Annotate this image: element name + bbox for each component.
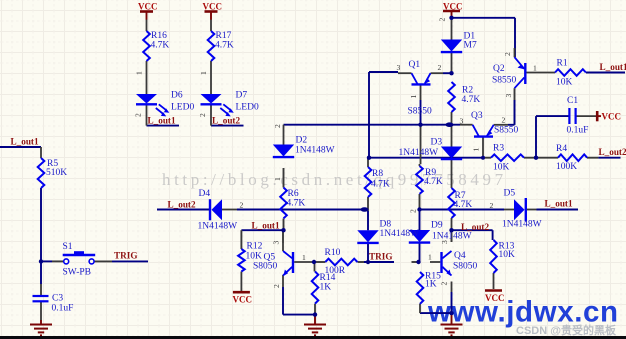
svg-text:1: 1 (533, 64, 537, 73)
svg-text:100K: 100K (556, 162, 577, 172)
svg-text:10K: 10K (499, 250, 516, 260)
svg-text:S8550: S8550 (492, 76, 517, 86)
svg-text:2: 2 (438, 63, 442, 72)
svg-text:1N4148W: 1N4148W (432, 232, 472, 242)
svg-text:C3: C3 (52, 294, 63, 304)
svg-text:D9: D9 (431, 221, 443, 231)
svg-text:D4: D4 (199, 189, 211, 199)
svg-text:Q3: Q3 (471, 111, 483, 121)
svg-text:D6: D6 (171, 91, 183, 101)
svg-text:R14: R14 (320, 273, 336, 283)
svg-text:VCC: VCC (485, 293, 505, 303)
svg-text:1K: 1K (320, 283, 332, 293)
svg-text:1: 1 (302, 253, 306, 262)
svg-text:Q1: Q1 (409, 60, 421, 70)
svg-text:2: 2 (240, 201, 244, 210)
svg-text:510K: 510K (46, 168, 67, 178)
svg-text:1: 1 (472, 148, 481, 152)
svg-text:1: 1 (273, 177, 282, 181)
svg-text:1N4148W: 1N4148W (502, 220, 542, 230)
svg-text:4.7K: 4.7K (287, 199, 306, 209)
svg-text:10K: 10K (556, 78, 573, 88)
svg-text:4.7K: 4.7K (371, 180, 390, 190)
svg-text:1: 1 (199, 71, 208, 75)
svg-text:R12: R12 (247, 242, 263, 252)
svg-text:D2: D2 (296, 136, 308, 146)
svg-text:2: 2 (490, 201, 494, 210)
svg-text:L_out1: L_out1 (600, 62, 626, 72)
svg-text:1K: 1K (425, 280, 437, 290)
svg-text:4.7K: 4.7K (151, 41, 170, 51)
svg-text:4.7K: 4.7K (215, 41, 234, 51)
svg-text:S8550: S8550 (408, 107, 433, 117)
svg-text:S8050: S8050 (253, 262, 278, 272)
svg-text:S8550: S8550 (494, 126, 519, 136)
svg-text:C1: C1 (567, 96, 578, 106)
svg-text:3: 3 (397, 63, 401, 72)
svg-text:LED0: LED0 (236, 103, 259, 113)
svg-text:10K: 10K (493, 163, 510, 173)
svg-text:D7: D7 (236, 91, 248, 101)
svg-text:VCC: VCC (233, 295, 253, 305)
svg-text:2: 2 (272, 284, 281, 288)
svg-text:L_out1: L_out1 (545, 199, 573, 209)
svg-text:1N4148W: 1N4148W (198, 222, 238, 232)
svg-text:R6: R6 (288, 189, 299, 199)
svg-text:CSDN @贵受的黑板: CSDN @贵受的黑板 (516, 323, 617, 337)
svg-text:VCC: VCC (138, 2, 158, 12)
svg-text:L_out1: L_out1 (11, 137, 39, 147)
svg-text:R4: R4 (556, 144, 567, 154)
svg-text:http://blog.csdn.net/qq9977584: http://blog.csdn.net/qq997758497 (162, 170, 507, 189)
svg-text:0.1uF: 0.1uF (567, 126, 589, 136)
svg-text:1: 1 (428, 253, 432, 262)
svg-text:R16: R16 (151, 31, 167, 41)
svg-text:2: 2 (273, 124, 282, 128)
svg-text:LED0: LED0 (171, 103, 194, 113)
svg-text:1: 1 (409, 95, 418, 99)
svg-text:R8: R8 (372, 169, 383, 179)
svg-text:SW-PB: SW-PB (63, 268, 92, 278)
svg-text:2: 2 (409, 209, 418, 213)
svg-text:L_out2: L_out2 (461, 222, 489, 232)
svg-text:4.7K: 4.7K (462, 95, 481, 105)
svg-text:3: 3 (272, 241, 281, 245)
svg-text:3: 3 (504, 94, 513, 98)
svg-text:1N4148W: 1N4148W (399, 148, 439, 158)
svg-text:S8050: S8050 (453, 262, 478, 272)
svg-text:S1: S1 (63, 242, 73, 252)
svg-text:L_out2: L_out2 (168, 200, 196, 210)
svg-text:L_out1: L_out1 (252, 221, 280, 231)
svg-text:Q2: Q2 (493, 64, 505, 74)
svg-text:R10: R10 (325, 248, 341, 258)
svg-text:1N4148W: 1N4148W (295, 146, 335, 156)
svg-text:2: 2 (440, 282, 449, 286)
svg-text:4.7K: 4.7K (454, 200, 473, 210)
svg-text:2: 2 (134, 113, 143, 117)
svg-text:Q4: Q4 (454, 251, 466, 261)
svg-text:L_out2: L_out2 (599, 147, 626, 157)
svg-text:R3: R3 (493, 144, 504, 154)
svg-text:2: 2 (438, 18, 447, 22)
svg-text:L_out2: L_out2 (212, 116, 240, 126)
svg-text:2: 2 (198, 113, 207, 117)
svg-text:TRIG: TRIG (369, 252, 393, 262)
svg-text:M7: M7 (464, 41, 477, 51)
svg-text:D3: D3 (431, 138, 443, 148)
svg-text:1N4148W: 1N4148W (380, 229, 420, 239)
svg-text:R1: R1 (557, 59, 568, 69)
svg-text:2: 2 (502, 116, 506, 125)
svg-text:L_out1: L_out1 (148, 116, 176, 126)
svg-text:1: 1 (135, 71, 144, 75)
svg-text:VCC: VCC (203, 2, 223, 12)
svg-text:D8: D8 (380, 220, 392, 230)
svg-text:3: 3 (440, 240, 449, 244)
svg-text:3: 3 (460, 117, 464, 126)
svg-text:2: 2 (503, 52, 512, 56)
svg-text:0.1uF: 0.1uF (52, 304, 74, 314)
svg-text:TRIG: TRIG (114, 251, 138, 261)
svg-text:4.7K: 4.7K (424, 177, 443, 187)
svg-text:VCC: VCC (602, 112, 622, 122)
svg-text:R17: R17 (216, 31, 232, 41)
svg-text:10K: 10K (246, 252, 263, 262)
svg-text:R2: R2 (462, 86, 473, 96)
svg-text:D5: D5 (504, 189, 516, 199)
